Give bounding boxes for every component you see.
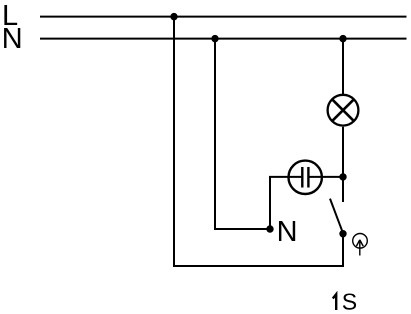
label 1S letter S (343, 293, 356, 309)
wire lamp top lead (342, 39, 344, 94)
wire from glow lamp right plate to switch node (308, 176, 343, 178)
wire N riser down and right (215, 39, 270, 229)
junction on N line right (339, 35, 346, 42)
glow lamp right plate (307, 167, 309, 188)
glow lamp circle (289, 161, 322, 194)
actuator arrow stem (359, 240, 361, 256)
switch 1S arm (330, 199, 343, 234)
junction on L line (170, 13, 177, 20)
junction node N middle (266, 225, 273, 232)
wire left vertical from L junction down (173, 17, 175, 266)
junction at switch top / glow lamp (339, 173, 346, 180)
actuator arrow head left (356, 240, 359, 246)
wire lamp bottom lead (342, 127, 344, 202)
node N label (4, 28, 20, 48)
wire right vertical from bottom to switch (342, 234, 344, 267)
lamp cross stroke 2 (332, 99, 354, 121)
actuator arrow head right (360, 240, 363, 246)
junction on N line left (211, 35, 218, 42)
node L label (4, 5, 17, 25)
wire N line (40, 38, 407, 40)
switch 1S bottom contact junction (339, 230, 346, 237)
label 1S digit 1 (333, 294, 336, 310)
node N middle label (279, 221, 295, 241)
wire bottom horizontal (173, 265, 344, 267)
actuator circle (353, 234, 368, 249)
glow lamp left plate (301, 167, 303, 188)
lamp circle (328, 95, 359, 126)
wire from N node up to glow lamp (270, 177, 302, 229)
lamp cross stroke 1 (332, 99, 354, 121)
wire L line (40, 16, 407, 18)
